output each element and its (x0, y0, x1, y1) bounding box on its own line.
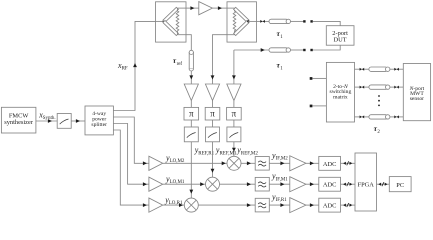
wire splitter output 4 to LO amp row 3 (113, 130, 148, 207)
mixer 2 (206, 177, 220, 191)
wire IF amp 2 to ADC 2 (306, 182, 319, 186)
wire mixer 1 to LPF 1 (241, 161, 255, 165)
node label x_Synth (38, 111, 55, 122)
node label y_REF,R1 (194, 146, 215, 157)
wire delay to amp column 1 (189, 71, 193, 84)
shaper box column 2 (206, 127, 220, 142)
wire divider to reference delay (186, 35, 191, 51)
LO amp row 2 (149, 177, 163, 191)
LPF row 2 (255, 177, 269, 191)
power combiner box (right Wilkinson) (227, 2, 257, 42)
wire LO amp to mixer 3 (163, 203, 185, 207)
label tau_2 (374, 124, 381, 135)
matrix input stub 1 (310, 77, 327, 80)
shaper box column 1 (184, 127, 198, 142)
reference amp column 3 (227, 84, 241, 101)
wire pi to shaper column 3 (233, 120, 235, 127)
wire LO amp to mixer 2 (163, 182, 206, 186)
svg-text:FPGA: FPGA (358, 182, 375, 189)
node label y_IF,M1 (271, 172, 288, 183)
PC box (389, 177, 411, 192)
shaper box column 3 (227, 127, 241, 142)
matrix output row A with sensor cable (355, 67, 404, 71)
test cable 2 (tau_1) (269, 48, 290, 52)
wire mixer 2 to LPF 2 (220, 182, 256, 186)
wire cable 1 to DUT port 1 (291, 20, 341, 26)
svg-text:π: π (189, 109, 194, 119)
wire shaper to mixer 3 (column 1) (189, 142, 193, 198)
bus FPGA to PC (377, 182, 390, 186)
RF amplifier (199, 2, 213, 15)
4-way power splitter box (85, 106, 113, 135)
node label y_IF,M2 (271, 151, 288, 162)
wire splitter output 3 to LO amp row 2 (113, 124, 148, 187)
node label y_REF,M2 (236, 146, 258, 157)
bus ADC 2 to FPGA (341, 182, 356, 186)
FPGA box (355, 153, 377, 211)
wire port-2 node to amp column 3 (232, 50, 236, 84)
ADC box row 3 (319, 198, 341, 212)
IF amp row 1 (290, 156, 306, 171)
wire combiner output to test cable 1 (257, 20, 270, 23)
pi network box column 3 (227, 107, 242, 120)
wire splitter output 1 up to divider (x_RF) (113, 21, 155, 110)
pi network box column 2 (205, 107, 220, 120)
wire amp to pi box column 3 (233, 101, 235, 108)
svg-text:sensor: sensor (410, 96, 424, 102)
wire cable 2 to DUT port 2 (291, 45, 341, 51)
node label y_LO,M1 (165, 175, 185, 186)
wire IF amp 1 to ADC 1 (306, 161, 319, 165)
IF amp row 3 (290, 198, 306, 213)
power divider box (left Wilkinson) (156, 2, 187, 42)
bus ADC 3 to FPGA (341, 203, 356, 207)
label tau_ref (173, 56, 183, 67)
mixer 3 (184, 198, 198, 212)
svg-text:splitter: splitter (91, 122, 107, 128)
wire IF amp 3 to ADC 3 (306, 203, 319, 207)
FMCW synthesizer box (1, 107, 36, 133)
wire amplifier to combiner (212, 6, 227, 10)
reference amp column 1 (184, 84, 198, 101)
node label y_LO,M2 (165, 154, 185, 165)
reference delay line tau_ref (189, 50, 193, 71)
wire LO amp to mixer 1 (163, 161, 227, 165)
test cable 1 (tau_1) (269, 19, 290, 23)
svg-text:PC: PC (396, 182, 404, 189)
pi network box column 1 (184, 107, 199, 120)
ellipsis dots (378, 95, 380, 106)
shaping filter box (57, 114, 71, 129)
svg-text:DUT: DUT (334, 36, 347, 43)
wire LPF 3 to IF amp 3 (269, 203, 290, 207)
mixer 1 (227, 156, 241, 170)
label tau_1 (bottom) (277, 61, 284, 72)
wire combiner to amp column 2 (211, 35, 227, 84)
N-port MWT sensor box (403, 64, 430, 121)
wire amp to pi box column 2 (212, 101, 214, 108)
svg-text:synthesizer: synthesizer (4, 119, 34, 126)
IF amp row 2 (290, 177, 306, 192)
wire pi to shaper column 2 (212, 120, 214, 127)
wire mixer 3 to LPF 3 (198, 203, 255, 207)
node label y_REF,M1 (215, 146, 237, 157)
wire pi to shaper column 1 (190, 120, 192, 127)
wire filter to splitter (71, 119, 85, 123)
wire amp to pi box column 1 (190, 101, 192, 108)
reference amp column 2 (205, 84, 219, 101)
node label y_LO,R1 (164, 195, 183, 206)
ADC box row 2 (319, 177, 341, 191)
svg-text:ADC: ADC (323, 182, 337, 189)
matrix output row C with sensor cable (355, 115, 404, 119)
wire splitter output 2 to LO amp row 1 (113, 117, 148, 165)
LO amp row 3 (149, 198, 163, 212)
ADC box row 1 (319, 156, 341, 170)
wire shaper to mixer 1 (column 3) (232, 142, 236, 157)
wire shaper to mixer 2 (column 2) (211, 142, 215, 177)
wire divider to amplifier (186, 6, 199, 10)
matrix output row B with sensor cable (355, 85, 404, 89)
wire LPF 2 to IF amp 2 (269, 182, 290, 186)
svg-text:ADC: ADC (323, 203, 337, 210)
2-to-N switching matrix box (326, 62, 354, 122)
node label x_RF (117, 61, 128, 72)
node label y_IF,R1 (271, 193, 287, 204)
wire port-2 node to test cable 2 (234, 48, 269, 52)
svg-text:ADC: ADC (323, 161, 337, 168)
svg-text:π: π (210, 109, 215, 119)
wire LPF 1 to IF amp 1 (269, 161, 290, 165)
LO amp row 1 (149, 156, 163, 170)
2-port DUT box (326, 26, 354, 46)
bus ADC 1 to FPGA (341, 161, 356, 165)
label tau_1 (top) (277, 29, 284, 40)
LPF row 3 (255, 198, 269, 212)
svg-text:matrix: matrix (333, 95, 348, 101)
matrix input stub 2 (310, 105, 327, 108)
svg-text:π: π (232, 109, 237, 119)
wire FMCW to shaping filter (36, 119, 57, 123)
LPF row 1 (255, 157, 269, 171)
